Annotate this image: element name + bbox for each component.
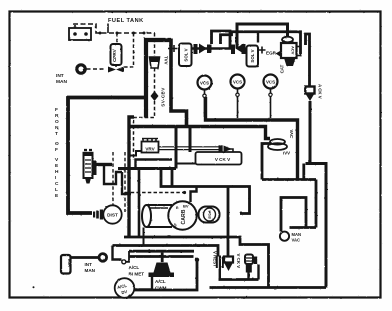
svg-text:VRV: VRV (145, 147, 155, 152)
wire BV output (97, 163, 113, 166)
switch VCS 3 (264, 75, 278, 119)
wire stub to V CK V box (176, 163, 196, 165)
svg-text:MAN: MAN (56, 79, 67, 85)
wire A/CL h250 (129, 250, 194, 253)
wire A/CL h237 (124, 237, 269, 288)
port bimet circle (122, 260, 126, 264)
wire bimet right link (126, 251, 129, 262)
wire arch B (237, 24, 288, 49)
svg-text:MAN: MAN (292, 232, 302, 237)
check valve (mid) (219, 145, 234, 152)
fitting right of V CK V (245, 255, 257, 273)
svg-text:SOL V: SOL V (250, 49, 255, 62)
svg-text:IVV: IVV (283, 151, 290, 156)
svg-text:C: C (55, 181, 59, 187)
valve A/CL DV (115, 278, 135, 298)
wire A/CL h245 (113, 246, 219, 257)
solenoid SOL V 1 (179, 44, 192, 67)
port INT MAN (lower) (85, 254, 107, 273)
junction dots on fuel tank line (99, 32, 146, 35)
carburetor air horn cylinder (142, 205, 172, 227)
wire dashed TVV to SV-CBV (154, 68, 156, 92)
valve fitting right of SOL V1 (194, 44, 212, 55)
wire dashed INT MAN to purge valve (87, 68, 105, 70)
wire arch A2 stepped (221, 32, 301, 54)
port MAN VAC (280, 232, 301, 243)
wire dashed carb box top (125, 192, 184, 194)
svg-text:VCS: VCS (266, 80, 275, 85)
svg-text:BV: BV (183, 204, 189, 209)
node SV-CBV junction (151, 87, 166, 107)
motor A/CL CWM (149, 253, 175, 291)
EGR port box bottom-left (61, 255, 71, 274)
stub above SOL V2 (257, 33, 259, 43)
wire carb top stub (191, 187, 197, 203)
svg-text:VCS: VCS (233, 80, 242, 85)
svg-text:V CK V: V CK V (215, 157, 231, 162)
wire A CK V down (309, 101, 312, 164)
wire bus B (VCS manifold) (206, 97, 298, 180)
wire dashed carb box left (112, 152, 114, 210)
wire DV to CWM (134, 276, 152, 290)
wire EGR box to INT MAN (71, 256, 99, 259)
node FRONT OF VEHICLE (55, 107, 59, 199)
check valve V CK V (bottom) (224, 254, 241, 272)
svg-text:VAC: VAC (289, 130, 294, 139)
svg-text:V CK V: V CK V (236, 254, 241, 269)
junction dot carb box (183, 191, 186, 194)
wire bottom h287 (210, 286, 327, 289)
wire bus C (128, 127, 270, 139)
port plus SOL V 1 (168, 45, 178, 52)
check valve A CK V (right) (305, 84, 322, 101)
wire drop to V CK V box (189, 128, 192, 152)
svg-text:CWM: CWM (155, 286, 167, 291)
node FUEL TANK label (108, 18, 144, 24)
svg-text:EGR: EGR (208, 210, 212, 218)
svg-text:EGR: EGR (67, 259, 71, 267)
wire thick main left riser (146, 40, 171, 118)
solenoid SOL V 2 (247, 46, 259, 67)
wire BV step hook (122, 172, 131, 194)
wire dashed fuel-tank line (73, 24, 155, 34)
svg-text:VCS: VCS (200, 81, 209, 86)
svg-text:CARB: CARB (181, 209, 187, 224)
svg-text:S: S (174, 223, 177, 228)
svg-text:MAN: MAN (85, 268, 96, 273)
wire arch A (212, 31, 231, 49)
svg-text:R: R (55, 113, 59, 119)
svg-text:INT: INT (85, 262, 93, 267)
svg-text:SV-CBV: SV-CBV (161, 87, 166, 107)
valve fitting left of SOL V2 (231, 44, 246, 55)
wire barrel to h279 (219, 269, 221, 280)
wire upper lateral h159 (136, 160, 173, 169)
svg-text:A/CL: A/CL (155, 279, 166, 284)
svg-text:F: F (55, 107, 58, 113)
wire stub vertical with cap dot (195, 258, 199, 262)
node A/CL BI MET label (129, 265, 145, 277)
wire long left vertical (129, 117, 134, 237)
connector barrel V REST (216, 256, 224, 270)
svg-text:T: T (55, 131, 58, 137)
svg-text:FUEL TANK: FUEL TANK (108, 18, 144, 24)
EGR valve oval (199, 207, 220, 223)
svg-text:CPRV: CPRV (112, 48, 117, 62)
wire cylinder bottom drop (143, 228, 145, 246)
svg-text:BI MET: BI MET (129, 272, 145, 277)
distributor DIST (103, 205, 121, 223)
node INT MAN (upper) (56, 65, 85, 85)
wire A CL vertical (138, 170, 141, 237)
switch VCS 2 (231, 75, 245, 119)
svg-text:A CK V: A CK V (318, 84, 323, 99)
wire lateral y179.5 (262, 178, 316, 181)
valve IVV (268, 130, 294, 156)
valve CPRV (108, 33, 124, 73)
wire long mid lateral (161, 169, 250, 214)
wire VCKV riser (227, 187, 230, 257)
svg-text:VAC: VAC (292, 237, 301, 242)
svg-text:F: F (55, 147, 58, 153)
wire bottom h279 (219, 278, 259, 281)
wire IVV left drop (262, 144, 271, 180)
wire BV lower steps (104, 166, 122, 184)
svg-text:ACV: ACV (291, 46, 296, 55)
svg-text:H: H (55, 169, 59, 175)
wire A CK V riser cap (306, 34, 310, 87)
valve ACV assembly (276, 37, 301, 66)
wire left frame line to DIST (68, 98, 146, 214)
wire second drop (171, 169, 174, 187)
sensor box (two-port) top-left (69, 25, 91, 40)
svg-text:E: E (176, 205, 179, 210)
svg-text:N: N (55, 125, 59, 131)
wire dashed purge branch (124, 33, 134, 67)
switch VCS 1 (198, 76, 212, 118)
wire drop to lateral (302, 164, 305, 180)
wire dashed carb box inner left (124, 152, 126, 212)
wire A/CL h256 (130, 255, 194, 258)
valve BV (left) (83, 150, 97, 184)
wire VRV to check valve (double line) (159, 147, 219, 150)
wire VRV left hook (129, 151, 142, 156)
svg-text:DIST: DIST (107, 213, 118, 218)
wire MAN VAC inner loop (281, 198, 306, 232)
svg-text:EGR: EGR (266, 51, 277, 56)
wire right manifold lines (306, 164, 327, 288)
wire elbow to bus (171, 39, 187, 127)
valve TVV (150, 33, 169, 68)
svg-text:A/CL: A/CL (129, 265, 140, 270)
wire bimet hook (113, 246, 122, 260)
svg-text:O: O (55, 141, 59, 147)
wire outer loop right (290, 180, 317, 228)
carburetor CARB (168, 201, 196, 229)
svg-text:TVV: TVV (164, 56, 169, 65)
wire mid lateral h168 (118, 167, 176, 170)
wire link between solenoid valves (192, 47, 231, 50)
svg-text:CAT: CAT (280, 64, 285, 73)
svg-text:O: O (55, 119, 59, 125)
wire riser from BV line to bus C (175, 127, 178, 169)
stray dot mark (33, 286, 35, 288)
connector at DIST (93, 210, 103, 220)
svg-text:SOL V: SOL V (184, 48, 189, 61)
regulator VRV (142, 138, 159, 153)
svg-text:L: L (55, 187, 58, 193)
wire dashed SV-CBV down and over (134, 101, 155, 160)
svg-text:INT: INT (56, 73, 64, 79)
wire fitting to h279 (249, 265, 259, 280)
label box V CK V (196, 152, 242, 165)
port plus SOL V2 (259, 47, 266, 54)
